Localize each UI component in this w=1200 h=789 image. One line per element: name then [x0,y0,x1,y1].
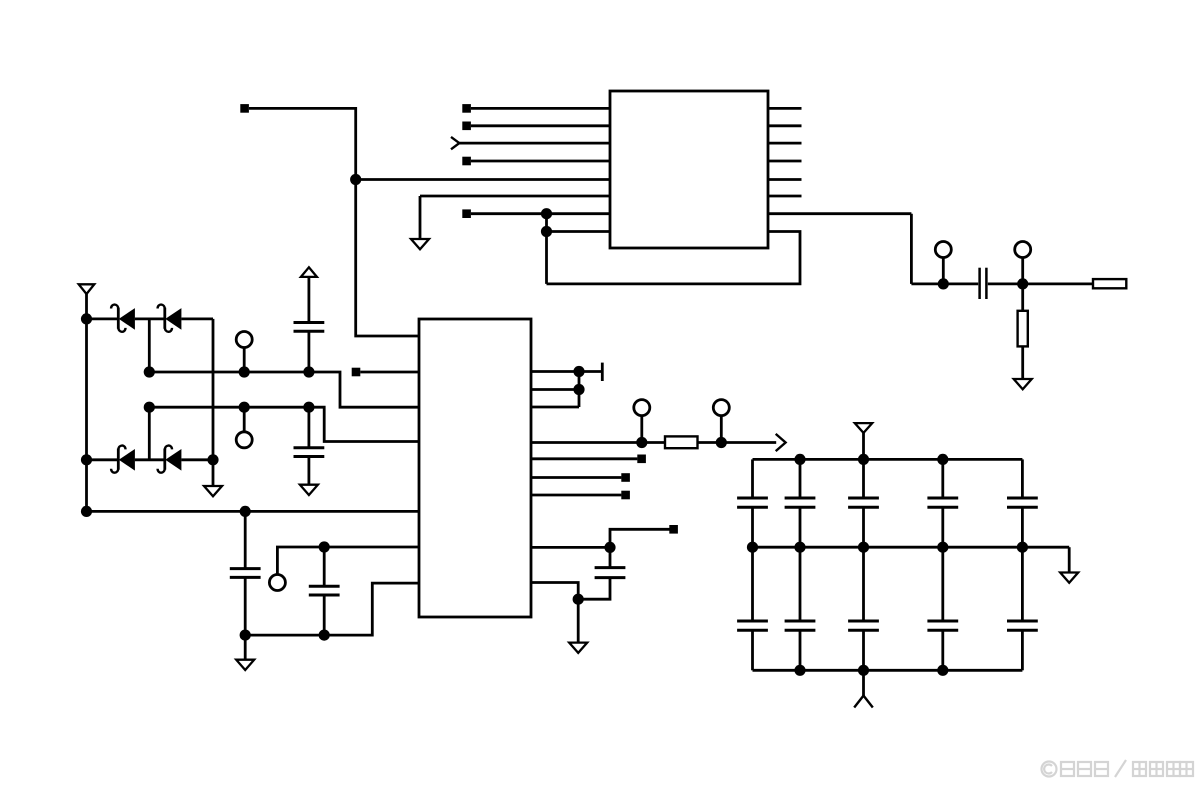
antenna terminator pad [1093,279,1126,288]
junction dot mid rail [1017,542,1028,553]
wire TP1 stub [942,258,945,284]
U2 right pin f with square terminal [531,491,630,500]
U1 right pin 7 lead to RF section [768,212,911,215]
junction dot row3-a [144,402,155,413]
ground GND2 [1014,379,1032,389]
wire net row2 to U2 pin 3 [149,372,419,407]
U1 pin 6 lead [420,195,610,198]
wire D1-D2 node down to row2 [148,319,151,372]
schottky diode D3 [117,449,120,470]
junction dot row5-b [240,506,251,517]
wire TP3 stub [243,348,246,373]
test point TP5 circle [269,575,285,591]
ground GND4 [300,485,318,495]
junction dot pin-g [604,542,615,553]
ground GND3 [204,486,222,496]
wire bottom rail stub [862,670,865,695]
junction dot mid rail [937,542,948,553]
junction dot top rail [858,454,869,465]
left rail junction dot row5 [81,506,92,517]
junction dot output-b [716,437,727,448]
wire C5 to pin h net [578,578,610,600]
capacitor C15 (bank top row col 5) [1007,459,1038,547]
U1 right pin 4 stub [768,160,802,163]
capacitor C23 (bank bottom row col 3) [848,547,879,670]
U2 output pin lead [531,441,665,444]
wire row3 to C2 [307,407,310,448]
capacitor C25 (bank bottom row col 5) [1007,547,1038,670]
wire tie pins a-b-c [578,372,581,408]
input terminal J1 (square pad) [240,104,249,113]
wire row5 to C3 [244,511,247,568]
capacitor C13 (bank top row col 3) [848,459,879,547]
junction dot row2-a [144,366,155,377]
U1 pin 2 lead with square terminal [462,122,610,131]
test point TP3 circle [236,332,252,348]
U1 pin 3 lead with clock chevron [451,137,610,149]
wire TP5 to U2 pin 6 [277,547,419,575]
IC U1 body [610,91,768,248]
wire mid rail to ground [1068,547,1071,572]
left rail junction dot row4 [81,454,92,465]
resistor R1 (vertical) [1018,311,1028,347]
wire RF drop [910,214,913,284]
U1 pin 5 lead (from node A) [356,178,610,181]
junction dot top rail [937,454,948,465]
junction dot top rail [794,454,805,465]
ground GND5 [236,660,254,670]
U1 right pin 6 stub [768,195,802,198]
capacitor C3 plates [230,569,261,578]
antenna ANT2 (down triangle) [855,423,872,433]
chassis fork symbol [854,696,873,708]
junction dot bottom rail [858,665,869,676]
capacitor C1 plates [294,323,325,332]
wire RF rail right of C9 [988,282,1093,285]
capacitor C4 plates [309,586,340,595]
junction dot bottom-b [319,630,330,641]
wire R1 to ground [1021,346,1024,379]
junction dot row2-c [303,366,314,377]
U1 pin 7 lead with square terminal [462,209,610,218]
U2 right pin e with square terminal [531,473,630,482]
junction dot pin-b [573,384,584,395]
junction dot on pin6 net [319,541,330,552]
capacitor C9 (series, vertical plates) [980,268,987,299]
wire D4 to x213 node [181,458,213,461]
U2 right pin h lead to ground [531,583,578,643]
resistor R2 (series, horizontal) [665,436,698,448]
wire bottom net to U2 pin 7 [245,583,419,635]
left rail junction dot row1 [81,313,92,324]
wire VCC1 to C1 [307,277,310,323]
junction dot row4 at x213 [207,454,218,465]
junction dot output-a [636,437,647,448]
U1 right pin 1 stub [768,107,802,110]
wire from J1 down to node A and to U2 pin 1 [249,108,419,336]
wire R2 to arrow [698,441,777,444]
junction dot bottom-a [240,630,251,641]
U1 pin 4 lead with square terminal [462,157,610,166]
wire pin6 net to C4 [323,547,326,586]
schottky diode D2 [163,308,166,329]
wire TP4 stub [243,407,246,432]
U2 right pin c lead [531,406,579,409]
capacitor C12 (bank top row col 2) [785,459,816,547]
junction dot mid rail [794,542,805,553]
capacitor C11 (bank top row col 1) [737,459,768,547]
U1 pin 7 junction dot [541,208,552,219]
wire pin g up-right to square terminal [610,525,678,547]
junction dot row2-b [239,366,250,377]
wire pin7/pin8 tie-down [545,214,548,284]
wire wrap-around loop under U1 [547,232,801,284]
test point TP2 circle [1015,242,1031,258]
wire bottom node to ground [244,635,247,660]
wire C2 to ground [307,457,310,485]
capacitor C5 plates [595,568,626,578]
U1 right pin 5 stub [768,178,802,181]
watermark text (stock-photo credit) [1042,760,1194,777]
wire RF rail left of C9 [911,282,978,285]
wire D2 to drop [181,317,213,320]
capacitor C22 (bank bottom row col 2) [785,547,816,670]
terminator bar [601,363,604,381]
wire TP6 stub [640,416,643,443]
U2 right pin b lead [531,388,579,391]
wire cap-bank top rail [753,458,1023,461]
junction dot mid rail [747,542,758,553]
wire row3 to D3-D4 node [148,407,151,460]
stub terminal square to U2 pin 2 [352,368,419,377]
schottky diode D4 [163,449,166,470]
wire C1 to row2 [307,331,310,372]
wire pin g to C5 [609,547,612,567]
capacitor C21 (bank bottom row col 1) [737,547,768,670]
wire U1 pin6 to ground [419,196,422,239]
wire D1 to D2 [135,317,165,320]
wire D3 to D4 [135,458,165,461]
U2 right pin g lead [531,546,610,549]
wire net row5 to U2 pin 5 [87,510,420,513]
wire rail to D1 [87,317,120,320]
wire TP2 to resistor R1 [1021,284,1024,311]
node junction dot at TP2 [1017,278,1028,289]
capacitor C2 plates [294,448,325,457]
junction dot row3-c [303,402,314,413]
wire ANT2 stub [862,433,865,460]
junction dot row3-b [239,402,250,413]
test point TP6 circle [634,400,650,416]
ground GND7 [1060,573,1078,583]
ground GND6 [569,643,587,653]
schottky diode D1 [117,308,120,329]
ground GND1 [411,239,429,249]
antenna ANT1 (down triangle) [79,284,95,294]
wire left rail [85,294,88,511]
wire vertical drop x213 to ground [212,319,215,486]
junction dot bottom rail [937,665,948,676]
wire net row3 to U2 pin 4 [149,407,419,441]
wire cap-bank bottom rail [753,669,1023,672]
U1 right pin 2 stub [768,124,802,127]
wire TP2 stub [1021,258,1024,284]
capacitor C14 (bank top row col 4) [927,459,958,547]
wire rail to D3 [87,458,120,461]
U2 right pin d with square terminal [531,455,646,464]
junction dot pin-a [573,366,584,377]
signal arrow head [776,434,786,451]
supply arrow VCC1 (up triangle) [301,267,317,277]
wire C4 to bottom net [323,595,326,635]
U1 pin 8 junction dot [541,226,552,237]
wire TP7 stub [720,416,723,443]
node A junction dot (U1 pin5 tap) [350,174,361,185]
IC U2 body [419,319,531,617]
test point TP7 circle [713,400,729,416]
U1 pin 8 lead [547,230,611,233]
wire C3 to bottom node [244,577,247,635]
U2 right pin a lead [531,370,602,373]
test point TP4 circle [236,432,252,448]
junction dot bottom rail [794,665,805,676]
wire cap-bank mid rail [753,546,1070,549]
capacitor C24 (bank bottom row col 4) [927,547,958,670]
U1 right pin 3 stub [768,142,802,145]
test point TP1 circle [935,242,951,258]
junction dot pin-h net [573,594,584,605]
junction dot mid rail [858,542,869,553]
node junction dot at TP1 [938,278,949,289]
U1 pin 1 lead with square terminal [462,104,610,113]
